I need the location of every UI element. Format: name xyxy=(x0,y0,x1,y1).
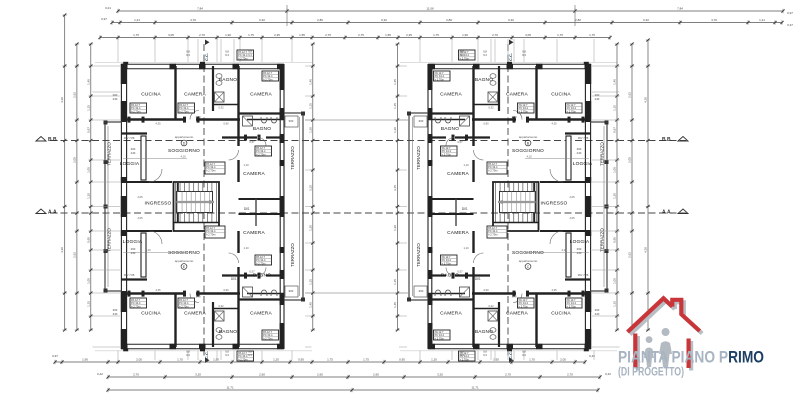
svg-text:11,71: 11,71 xyxy=(471,385,479,389)
svg-text:h 2.70m: h 2.70m xyxy=(238,357,247,361)
svg-text:1,75: 1,75 xyxy=(433,33,439,37)
svg-text:TERRAZZO: TERRAZZO xyxy=(600,142,605,166)
svg-text:C: C xyxy=(527,265,530,269)
svg-text:0,32: 0,32 xyxy=(488,304,494,308)
svg-text:1,45: 1,45 xyxy=(613,79,617,85)
svg-text:11,71: 11,71 xyxy=(226,385,234,389)
svg-text:CAMERA: CAMERA xyxy=(250,311,272,317)
svg-text:LOGGIA: LOGGIA xyxy=(573,161,593,167)
svg-text:1,20: 1,20 xyxy=(393,225,397,231)
svg-text:0,21: 0,21 xyxy=(105,6,111,10)
svg-text:2,62: 2,62 xyxy=(72,252,76,258)
svg-text:3,20: 3,20 xyxy=(437,372,443,376)
svg-text:9,8: 9,8 xyxy=(522,50,526,54)
svg-text:1,15: 1,15 xyxy=(613,105,617,111)
svg-text:0,90: 0,90 xyxy=(223,122,229,126)
svg-text:0,97: 0,97 xyxy=(787,11,793,15)
svg-text:CAMERA: CAMERA xyxy=(447,171,469,177)
svg-text:3,15: 3,15 xyxy=(308,185,312,191)
svg-text:h 2.70m: h 2.70m xyxy=(256,261,265,265)
svg-text:0,90: 0,90 xyxy=(223,288,229,292)
svg-text:1,90: 1,90 xyxy=(82,357,88,361)
svg-text:SOGGIORNO: SOGGIORNO xyxy=(168,250,200,256)
svg-text:2,35: 2,35 xyxy=(406,33,412,37)
svg-text:appartamento: appartamento xyxy=(175,135,194,139)
svg-text:SOGGIORNO: SOGGIORNO xyxy=(512,148,544,154)
svg-text:1,55: 1,55 xyxy=(299,33,305,37)
svg-text:INGRESSO: INGRESSO xyxy=(541,201,568,207)
svg-text:9,8: 9,8 xyxy=(186,50,190,54)
svg-text:TERRAZZO: TERRAZZO xyxy=(416,243,421,267)
svg-text:2,05: 2,05 xyxy=(569,195,575,199)
svg-text:1,20: 1,20 xyxy=(308,127,312,133)
svg-text:0,90: 0,90 xyxy=(483,288,489,292)
svg-text:2,80: 2,80 xyxy=(575,18,581,22)
svg-text:CAMERA: CAMERA xyxy=(243,230,265,236)
svg-text:SOGGIORNO: SOGGIORNO xyxy=(168,148,200,154)
svg-text:C.C.: C.C. xyxy=(204,53,209,61)
svg-text:9,8: 9,8 xyxy=(522,350,526,354)
svg-text:CAMERA: CAMERA xyxy=(250,92,272,98)
svg-text:CAMERA: CAMERA xyxy=(243,171,265,177)
svg-text:CAMERA: CAMERA xyxy=(447,230,469,236)
svg-text:9,8: 9,8 xyxy=(483,50,487,54)
svg-text:9,8: 9,8 xyxy=(460,350,464,354)
svg-text:2,05: 2,05 xyxy=(137,195,143,199)
svg-text:240: 240 xyxy=(595,312,600,316)
svg-text:0,97: 0,97 xyxy=(613,127,617,133)
svg-text:9,3: 9,3 xyxy=(225,353,229,357)
svg-text:h 2.70m: h 2.70m xyxy=(131,304,140,308)
svg-text:0,95: 0,95 xyxy=(86,237,90,243)
svg-text:B.B.: B.B. xyxy=(662,137,673,143)
svg-text:BAGNO: BAGNO xyxy=(475,77,493,83)
svg-text:0,32: 0,32 xyxy=(643,18,649,22)
svg-text:9,8: 9,8 xyxy=(225,350,229,354)
svg-text:7,84: 7,84 xyxy=(197,6,203,10)
svg-text:2,75: 2,75 xyxy=(325,33,331,37)
svg-text:2,05: 2,05 xyxy=(136,357,142,361)
svg-text:CAMERA: CAMERA xyxy=(440,311,462,317)
svg-text:0,32: 0,32 xyxy=(488,106,494,110)
svg-text:1,05: 1,05 xyxy=(613,278,617,284)
svg-text:0,32: 0,32 xyxy=(218,106,224,110)
svg-text:1,10: 1,10 xyxy=(463,246,469,250)
svg-text:9,3: 9,3 xyxy=(460,53,464,57)
svg-text:1,45: 1,45 xyxy=(308,302,312,308)
svg-text:9,3: 9,3 xyxy=(248,353,252,357)
svg-text:CUCINA: CUCINA xyxy=(141,311,161,317)
svg-text:4,30: 4,30 xyxy=(644,97,648,103)
svg-text:BAGNO: BAGNO xyxy=(475,329,493,335)
svg-text:h 2.70m: h 2.70m xyxy=(442,261,451,265)
svg-text:1,75: 1,75 xyxy=(363,357,369,361)
svg-text:0,97: 0,97 xyxy=(86,127,90,133)
svg-text:1,75: 1,75 xyxy=(557,33,563,37)
svg-text:2,80: 2,80 xyxy=(317,18,323,22)
svg-text:D: D xyxy=(183,141,186,145)
svg-text:2,62: 2,62 xyxy=(628,92,632,98)
svg-text:1,15: 1,15 xyxy=(393,103,397,109)
svg-text:1,70: 1,70 xyxy=(195,295,201,299)
svg-text:2,62: 2,62 xyxy=(72,92,76,98)
svg-text:2,70: 2,70 xyxy=(133,372,139,376)
svg-text:9,3: 9,3 xyxy=(522,353,526,357)
svg-text:9,3: 9,3 xyxy=(186,353,190,357)
svg-text:2,70: 2,70 xyxy=(567,372,573,376)
svg-text:0,95: 0,95 xyxy=(613,237,617,243)
svg-text:900: 900 xyxy=(419,289,424,293)
svg-text:1,05: 1,05 xyxy=(86,278,90,284)
svg-text:LOGGIA: LOGGIA xyxy=(123,239,143,245)
svg-text:4,30: 4,30 xyxy=(60,247,64,253)
svg-text:0,57: 0,57 xyxy=(249,140,255,144)
svg-text:1,75: 1,75 xyxy=(248,33,254,37)
svg-text:CUCINA: CUCINA xyxy=(551,311,571,317)
svg-text:1,70: 1,70 xyxy=(195,115,201,119)
svg-text:TERRAZZO: TERRAZZO xyxy=(416,146,421,170)
svg-text:BAGNO: BAGNO xyxy=(253,273,271,279)
svg-text:1,70: 1,70 xyxy=(511,295,517,299)
svg-text:3,20: 3,20 xyxy=(195,372,201,376)
svg-text:0,32: 0,32 xyxy=(218,304,224,308)
svg-text:9,3: 9,3 xyxy=(483,353,487,357)
svg-text:A.A.: A.A. xyxy=(662,210,673,216)
svg-text:1,15: 1,15 xyxy=(308,103,312,109)
svg-text:LOGGIA: LOGGIA xyxy=(570,239,590,245)
svg-text:4,70: 4,70 xyxy=(190,18,196,22)
svg-text:240: 240 xyxy=(113,97,118,101)
svg-text:1,15: 1,15 xyxy=(86,301,90,307)
svg-text:1,70: 1,70 xyxy=(177,357,183,361)
svg-text:h 2.70m: h 2.70m xyxy=(519,304,528,308)
svg-text:0,57: 0,57 xyxy=(457,140,463,144)
svg-text:TERRAZZO: TERRAZZO xyxy=(107,142,112,166)
svg-text:0,32: 0,32 xyxy=(259,18,265,22)
svg-text:PAV 7.88: PAV 7.88 xyxy=(578,136,589,140)
svg-text:2,05: 2,05 xyxy=(137,216,143,220)
svg-text:PAV 7.88: PAV 7.88 xyxy=(124,136,135,140)
svg-text:1,55: 1,55 xyxy=(385,33,391,37)
svg-text:1,50: 1,50 xyxy=(213,357,219,361)
svg-text:4,35: 4,35 xyxy=(551,122,557,126)
svg-text:1,41: 1,41 xyxy=(134,18,140,22)
svg-text:0,97: 0,97 xyxy=(52,354,58,358)
svg-text:h 2.70m: h 2.70m xyxy=(179,304,188,308)
svg-text:1,15: 1,15 xyxy=(613,301,617,307)
svg-text:2,05: 2,05 xyxy=(560,357,566,361)
svg-text:9,3: 9,3 xyxy=(522,53,526,57)
svg-text:(DI PROGETTO): (DI PROGETTO) xyxy=(618,365,684,379)
svg-text:1,15: 1,15 xyxy=(393,279,397,285)
svg-text:PAV 7.88: PAV 7.88 xyxy=(124,273,135,277)
svg-text:2,80: 2,80 xyxy=(446,18,452,22)
svg-text:9,3: 9,3 xyxy=(225,53,229,57)
svg-text:CAMERA: CAMERA xyxy=(506,92,528,98)
svg-text:0,42: 0,42 xyxy=(97,372,103,376)
svg-text:0,90: 0,90 xyxy=(483,122,489,126)
svg-text:4,10: 4,10 xyxy=(526,155,532,159)
svg-text:0,95: 0,95 xyxy=(298,357,304,361)
svg-text:7,84: 7,84 xyxy=(677,6,683,10)
svg-text:3,05: 3,05 xyxy=(525,33,531,37)
svg-text:B.B.: B.B. xyxy=(48,137,59,143)
svg-text:4,10: 4,10 xyxy=(180,155,186,159)
svg-text:SOGGIORNO: SOGGIORNO xyxy=(512,250,544,256)
svg-text:1,90: 1,90 xyxy=(462,33,468,37)
svg-text:240: 240 xyxy=(595,97,600,101)
svg-text:BAGNO: BAGNO xyxy=(219,77,237,83)
svg-text:2,05: 2,05 xyxy=(569,216,575,220)
svg-text:1,45: 1,45 xyxy=(86,79,90,85)
svg-text:4,10: 4,10 xyxy=(145,248,151,252)
svg-text:2,05: 2,05 xyxy=(72,157,76,163)
svg-text:9,8: 9,8 xyxy=(186,350,190,354)
svg-text:1,20: 1,20 xyxy=(431,357,437,361)
svg-text:0,97: 0,97 xyxy=(101,17,107,21)
svg-text:4,35: 4,35 xyxy=(155,122,161,126)
svg-text:CAMERA: CAMERA xyxy=(440,92,462,98)
svg-text:BAGNO: BAGNO xyxy=(441,126,459,132)
svg-text:1,20: 1,20 xyxy=(273,357,279,361)
svg-text:C.C.: C.C. xyxy=(508,351,513,359)
svg-text:TERRAZZO: TERRAZZO xyxy=(600,228,605,252)
svg-text:1,20: 1,20 xyxy=(86,193,90,199)
svg-text:CAMERA: CAMERA xyxy=(506,311,528,317)
svg-text:1,75: 1,75 xyxy=(133,33,139,37)
svg-text:1,70: 1,70 xyxy=(511,115,517,119)
svg-text:2,70: 2,70 xyxy=(199,33,205,37)
svg-text:9,3: 9,3 xyxy=(483,53,487,57)
svg-text:11,06: 11,06 xyxy=(426,6,434,10)
svg-text:DIS.: DIS. xyxy=(244,207,250,211)
svg-text:h 2.70m: h 2.70m xyxy=(435,336,444,340)
svg-text:1,20: 1,20 xyxy=(393,127,397,133)
svg-text:1,70: 1,70 xyxy=(529,357,535,361)
svg-text:DIS.: DIS. xyxy=(231,277,237,281)
svg-text:PAV 7.88: PAV 7.88 xyxy=(578,273,589,277)
svg-text:0,95: 0,95 xyxy=(399,357,405,361)
svg-text:1,45: 1,45 xyxy=(393,79,397,85)
svg-text:900: 900 xyxy=(419,119,424,123)
svg-text:INGRESSO: INGRESSO xyxy=(145,201,172,207)
svg-text:1,41: 1,41 xyxy=(759,18,765,22)
svg-text:3,15: 3,15 xyxy=(393,185,397,191)
svg-text:1,75: 1,75 xyxy=(327,357,333,361)
svg-text:4,30: 4,30 xyxy=(644,247,648,253)
svg-text:1,10: 1,10 xyxy=(243,163,249,167)
svg-text:BAGNO: BAGNO xyxy=(253,126,271,132)
svg-text:240: 240 xyxy=(113,312,118,316)
svg-text:0,37: 0,37 xyxy=(787,23,793,27)
svg-text:9,8: 9,8 xyxy=(248,350,252,354)
svg-text:2,75: 2,75 xyxy=(358,33,364,37)
svg-text:240: 240 xyxy=(131,151,136,155)
svg-text:2,62: 2,62 xyxy=(628,252,632,258)
svg-text:2,70: 2,70 xyxy=(492,33,498,37)
svg-text:4,35: 4,35 xyxy=(551,288,557,292)
svg-text:CUCINA: CUCINA xyxy=(141,92,161,98)
svg-text:1,10: 1,10 xyxy=(243,246,249,250)
svg-text:appartamento: appartamento xyxy=(519,259,538,263)
svg-text:TERRAZZO: TERRAZZO xyxy=(290,146,295,170)
svg-text:1,05: 1,05 xyxy=(86,167,90,173)
svg-text:1,90: 1,90 xyxy=(225,33,231,37)
svg-text:C.C.: C.C. xyxy=(508,53,513,61)
svg-text:A.A.: A.A. xyxy=(48,210,59,216)
svg-text:4,70: 4,70 xyxy=(711,18,717,22)
svg-text:2,35: 2,35 xyxy=(274,33,280,37)
svg-text:TERRAZZO: TERRAZZO xyxy=(290,243,295,267)
svg-text:h 2.70m: h 2.70m xyxy=(567,304,576,308)
svg-text:4,10: 4,10 xyxy=(561,248,567,252)
svg-text:h 2.70m: h 2.70m xyxy=(263,336,272,340)
svg-text:1,05: 1,05 xyxy=(613,167,617,173)
svg-text:h 2.70m: h 2.70m xyxy=(460,357,469,361)
svg-text:BAGNO: BAGNO xyxy=(219,329,237,335)
svg-text:4,30: 4,30 xyxy=(60,97,64,103)
svg-text:900: 900 xyxy=(289,289,294,293)
svg-text:1,15: 1,15 xyxy=(308,279,312,285)
svg-text:240: 240 xyxy=(131,251,136,255)
svg-text:2,70: 2,70 xyxy=(505,372,511,376)
svg-text:CAMERA: CAMERA xyxy=(184,311,206,317)
svg-text:2,60: 2,60 xyxy=(259,372,265,376)
svg-text:appartamento: appartamento xyxy=(175,259,194,263)
svg-text:0,32: 0,32 xyxy=(381,18,387,22)
svg-text:CAMERA: CAMERA xyxy=(184,92,206,98)
svg-text:3,05: 3,05 xyxy=(168,33,174,37)
svg-text:2,05: 2,05 xyxy=(628,157,632,163)
svg-text:DIS.: DIS. xyxy=(475,277,481,281)
svg-text:CUCINA: CUCINA xyxy=(551,92,571,98)
svg-text:9,8: 9,8 xyxy=(460,50,464,54)
svg-text:1,20: 1,20 xyxy=(613,193,617,199)
svg-text:900: 900 xyxy=(289,119,294,123)
svg-text:1,10: 1,10 xyxy=(463,163,469,167)
svg-text:appartamento: appartamento xyxy=(519,135,538,139)
svg-text:0,42: 0,42 xyxy=(589,354,595,358)
svg-text:9,3: 9,3 xyxy=(460,353,464,357)
svg-text:1,50: 1,50 xyxy=(493,357,499,361)
svg-text:0,32: 0,32 xyxy=(508,18,514,22)
svg-text:1,20: 1,20 xyxy=(308,225,312,231)
svg-text:C.C.: C.C. xyxy=(204,351,209,359)
svg-text:DIS.: DIS. xyxy=(462,207,468,211)
svg-text:0,42: 0,42 xyxy=(605,372,611,376)
svg-text:LOGGIA: LOGGIA xyxy=(120,161,140,167)
svg-text:9,8: 9,8 xyxy=(483,350,487,354)
svg-text:9,3: 9,3 xyxy=(248,53,252,57)
svg-text:4,35: 4,35 xyxy=(155,288,161,292)
svg-text:BAGNO: BAGNO xyxy=(441,273,459,279)
svg-text:2,60: 2,60 xyxy=(317,372,323,376)
svg-text:1,45: 1,45 xyxy=(308,79,312,85)
svg-text:1,45: 1,45 xyxy=(393,302,397,308)
svg-text:240: 240 xyxy=(577,151,582,155)
svg-text:9,3: 9,3 xyxy=(186,53,190,57)
svg-text:1,75: 1,75 xyxy=(589,33,595,37)
svg-text:9,8: 9,8 xyxy=(225,50,229,54)
svg-text:1,15: 1,15 xyxy=(86,105,90,111)
svg-text:240: 240 xyxy=(577,251,582,255)
svg-text:2,60: 2,60 xyxy=(373,372,379,376)
svg-text:9,8: 9,8 xyxy=(248,50,252,54)
svg-text:TERRAZZO: TERRAZZO xyxy=(107,228,112,252)
